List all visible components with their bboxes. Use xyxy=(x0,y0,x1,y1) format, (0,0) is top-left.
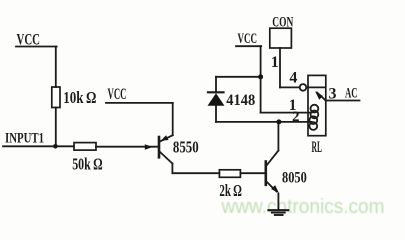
wire relay pin2 horizontal xyxy=(216,121,312,123)
connector CON box xyxy=(270,28,292,48)
relay switch arm xyxy=(317,93,326,101)
svg-text:10k Ω: 10k Ω xyxy=(63,88,96,107)
svg-text:VCC: VCC xyxy=(108,86,127,103)
wire Q2 emitter down to ground xyxy=(277,194,279,210)
svg-text:RL: RL xyxy=(312,139,323,156)
diode D1 cathode bar xyxy=(208,91,224,93)
svg-text:VCC: VCC xyxy=(17,31,41,48)
transistor Q1 emitter diagonal xyxy=(160,135,172,141)
svg-text:50k Ω: 50k Ω xyxy=(72,155,103,174)
relay RL box xyxy=(308,75,326,135)
resistor R2 50k body xyxy=(74,143,96,151)
wire emitter vertical xyxy=(172,103,174,135)
svg-text:4: 4 xyxy=(289,70,297,87)
wire CON to relay pin4 xyxy=(280,86,300,88)
ground bar 3 xyxy=(275,214,283,216)
svg-text:VCC: VCC xyxy=(238,31,258,47)
node VCC3 underline/wire xyxy=(236,45,261,47)
wire VCC2 underline to Q1 emitter xyxy=(106,102,173,104)
relay fixed contact line xyxy=(306,86,325,88)
wire INPUT1 horizontal xyxy=(3,145,74,147)
wire diode top to VCC3 vertical xyxy=(216,76,261,78)
transistor Q1 collector diagonal xyxy=(160,152,172,164)
arrowhead Q2 emitter (NPN, points out) xyxy=(271,185,279,193)
svg-text:2: 2 xyxy=(292,109,300,125)
junction dot input xyxy=(53,144,58,149)
wire Q1 collector down xyxy=(171,164,173,174)
wire R3 to Q2 base xyxy=(240,172,265,174)
diode D1 triangle xyxy=(208,93,225,106)
junction dot VCC3/diode xyxy=(258,74,263,79)
arrowhead on base wire of Q1 xyxy=(145,144,153,150)
relay coil loop 4 xyxy=(309,122,317,130)
svg-text:2k Ω: 2k Ω xyxy=(219,181,242,200)
wire CON pin1 down xyxy=(279,48,281,87)
svg-text:1: 1 xyxy=(271,54,279,71)
svg-text:INPUT1: INPUT1 xyxy=(5,131,44,147)
svg-text:4148: 4148 xyxy=(226,92,255,109)
resistor R1 10k body xyxy=(52,87,60,108)
svg-text:8550: 8550 xyxy=(173,138,199,157)
transistor Q2 collector diagonal xyxy=(267,151,279,166)
svg-text:CON: CON xyxy=(272,15,293,31)
wire collector to R3 xyxy=(172,172,219,174)
svg-text:8050: 8050 xyxy=(282,170,307,187)
relay contact circle pin4 xyxy=(300,84,307,91)
junction dot collector/pin2 xyxy=(276,119,281,124)
transistor Q1 8550 base bar xyxy=(158,137,161,157)
wire R1 to junction xyxy=(55,108,57,147)
wire relay pin3 to AC xyxy=(326,100,360,102)
svg-text:3: 3 xyxy=(329,86,337,103)
ground bar 2 xyxy=(272,212,285,214)
wire diode anode lead xyxy=(215,106,217,122)
resistor R3 2k body xyxy=(219,170,240,178)
relay coil loop 1 xyxy=(311,105,319,113)
svg-text:AC: AC xyxy=(345,86,358,102)
wire R2 to Q1 base xyxy=(96,146,158,148)
ground bar 1 xyxy=(268,209,288,211)
arrowhead Q1 emitter (PNP, points to bar) xyxy=(161,135,169,141)
wire Q2 collector up to junction xyxy=(277,122,279,151)
wire VCC3 vertical down xyxy=(260,46,262,112)
transistor Q2 8050 base bar xyxy=(264,162,267,185)
relay coil loop 2 xyxy=(311,111,319,119)
transistor Q2 emitter diagonal xyxy=(267,182,277,192)
node VCC1 wire/underline top-left xyxy=(16,46,57,48)
wire diode cathode lead xyxy=(215,77,217,93)
relay coil loop 3 xyxy=(309,116,317,124)
svg-text:www.cntronics.com: www.cntronics.com xyxy=(221,195,385,218)
wire VCC1 down to R1 xyxy=(55,47,57,88)
wire relay pin1 horizontal xyxy=(261,112,312,114)
relay arm arrowhead xyxy=(315,91,323,100)
